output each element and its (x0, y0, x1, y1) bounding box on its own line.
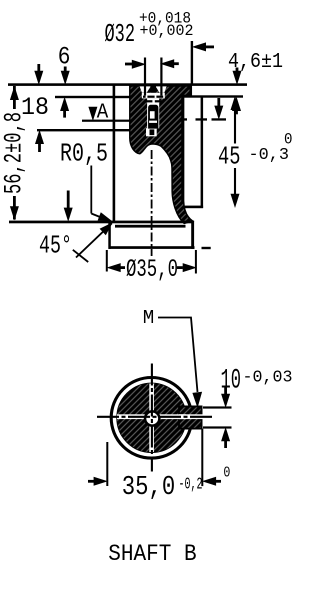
svg-text:-0,3: -0,3 (249, 145, 290, 164)
svg-text:R0,5: R0,5 (60, 140, 108, 169)
svg-text:18: 18 (21, 93, 49, 122)
tab M (179, 406, 202, 428)
svg-text:-0,2: -0,2 (179, 476, 203, 495)
centerlines bottom view (151, 364, 153, 472)
main hatched section (130, 86, 193, 223)
left silhouette edge (113, 84, 116, 223)
mystery arrow x68 (67, 191, 70, 209)
hidden thread dashes (143, 96, 146, 98)
lug right edge (201, 97, 204, 209)
white channels (149, 384, 154, 453)
cavity floor line (115, 225, 186, 228)
svg-text:35,0: 35,0 (122, 473, 176, 503)
dim 10 (203, 366, 293, 448)
flange top line (9, 221, 193, 224)
extension line x191 and arrow (191, 41, 193, 85)
outer circle (111, 378, 192, 459)
black center mark between countersink whites (150, 86, 156, 93)
dim 6 (58, 42, 71, 117)
O32 extension lines (144, 58, 146, 96)
O32 arrows (125, 63, 134, 66)
black mark in slot bottom (150, 129, 155, 135)
svg-text:A: A (97, 102, 109, 125)
svg-text:Ø32: Ø32 (105, 19, 136, 49)
disc hatched (117, 383, 187, 453)
dim 4,6 +-1 (228, 50, 283, 115)
dim 56,2 (0, 86, 28, 221)
svg-text:-0,03: -0,03 (243, 368, 293, 387)
svg-text:6: 6 (58, 42, 71, 71)
flange bottom line (109, 246, 195, 249)
shoulder line left (55, 96, 131, 98)
datum A target line (82, 120, 137, 122)
slot white (147, 98, 159, 128)
svg-text:SHAFT B: SHAFT B (108, 541, 197, 567)
top flange right edge thick (189, 84, 191, 96)
hidden line in lug (183, 118, 187, 120)
dim O35 top view (106, 250, 197, 284)
svg-text:Ø35,0: Ø35,0 (126, 255, 178, 284)
counterbore white band (142, 93, 165, 99)
screw feature (148, 105, 158, 129)
svg-text:M: M (143, 307, 155, 329)
countersink white left (140, 86, 151, 92)
flange left edge (108, 221, 111, 249)
lug bottom line (184, 206, 203, 209)
body right edge thick (181, 96, 184, 203)
white gap ring (115, 381, 189, 455)
svg-text:+0,002: +0,002 (140, 22, 194, 40)
shoulder line right (lug top) (181, 95, 243, 97)
dim 35,0 bottom (88, 429, 230, 503)
screw white window (150, 111, 155, 118)
lug depth arrow x218.8 (217, 98, 220, 107)
svg-text:0: 0 (223, 464, 230, 481)
flange right edge (191, 221, 194, 249)
top surface line (8, 83, 247, 86)
center hole (146, 413, 158, 425)
slot bottom white square (146, 128, 157, 136)
countersink white right (156, 86, 167, 92)
flange bottom dash right (202, 247, 211, 249)
datum A arrow (88, 107, 97, 121)
black rim around center hole (144, 410, 161, 427)
svg-text:45: 45 (218, 142, 241, 172)
centerline top view (151, 150, 153, 256)
svg-text:56,2±0,8: 56,2±0,8 (0, 112, 28, 194)
dim 18 (21, 64, 49, 152)
svg-text:45°: 45° (39, 230, 72, 260)
dim 45 right (218, 96, 293, 208)
svg-text:10: 10 (221, 366, 242, 397)
screw white slit (149, 121, 157, 123)
bore bottom line (37, 129, 161, 131)
